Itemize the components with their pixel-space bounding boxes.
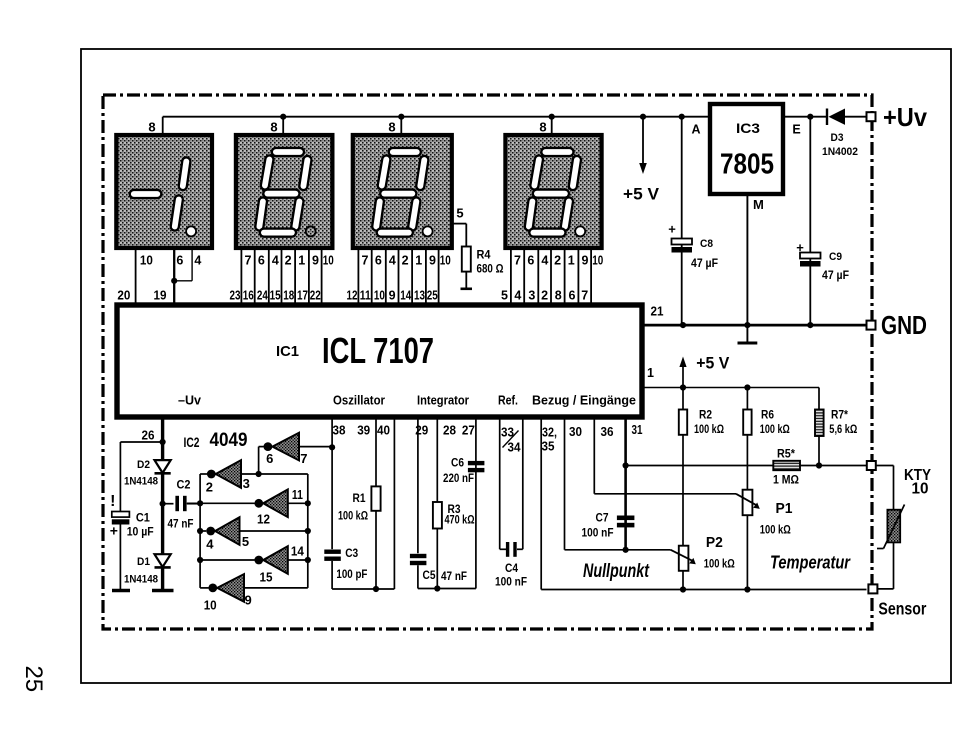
svg-text:10 µF: 10 µF — [127, 525, 154, 539]
svg-text:GND: GND — [881, 310, 927, 340]
svg-text:1: 1 — [298, 254, 305, 268]
svg-text:4049: 4049 — [210, 430, 248, 451]
svg-text:14: 14 — [291, 544, 305, 559]
svg-text:7: 7 — [581, 289, 588, 303]
svg-text:Bezug / Eingänge: Bezug / Eingänge — [532, 393, 636, 408]
svg-text:29: 29 — [415, 424, 428, 438]
svg-text:3: 3 — [528, 289, 535, 303]
svg-text:13: 13 — [414, 289, 425, 303]
svg-text:39: 39 — [357, 424, 370, 438]
svg-text:C2: C2 — [177, 478, 191, 492]
svg-text:6: 6 — [258, 254, 265, 268]
svg-text:1N4148: 1N4148 — [124, 574, 158, 586]
svg-text:IC2: IC2 — [184, 435, 200, 450]
svg-text:1N4002: 1N4002 — [822, 146, 858, 158]
svg-text:32,: 32, — [542, 426, 557, 440]
svg-text:IC1: IC1 — [276, 343, 299, 360]
svg-text:10: 10 — [204, 598, 217, 613]
svg-text:8: 8 — [539, 120, 546, 135]
svg-text:Temperatur: Temperatur — [770, 553, 851, 573]
svg-text:22: 22 — [310, 289, 321, 303]
svg-text:D1: D1 — [137, 556, 150, 568]
svg-text:5: 5 — [456, 206, 463, 221]
svg-text:6: 6 — [266, 451, 273, 466]
svg-text:C6: C6 — [451, 458, 464, 470]
svg-text:47 µF: 47 µF — [822, 270, 849, 282]
svg-text:7: 7 — [362, 254, 369, 268]
svg-text:23: 23 — [230, 289, 241, 303]
svg-text:4: 4 — [206, 537, 214, 552]
svg-text:9: 9 — [244, 593, 251, 608]
svg-text:14: 14 — [400, 289, 411, 303]
svg-text:18: 18 — [283, 289, 294, 303]
svg-text:25: 25 — [427, 289, 438, 303]
svg-text:10: 10 — [323, 254, 334, 268]
svg-text:Sensor: Sensor — [878, 599, 926, 619]
svg-text:+5 V: +5 V — [623, 186, 659, 204]
svg-text:8: 8 — [555, 289, 562, 303]
svg-text:9: 9 — [389, 289, 396, 303]
svg-text:16: 16 — [243, 289, 254, 303]
svg-text:R1: R1 — [353, 493, 367, 505]
svg-text:100 kΩ: 100 kΩ — [760, 525, 791, 537]
svg-text:27: 27 — [462, 424, 475, 438]
svg-text:100 nF: 100 nF — [582, 526, 614, 540]
svg-text:7: 7 — [300, 451, 307, 466]
svg-text:!: ! — [110, 493, 115, 510]
svg-text:38: 38 — [333, 424, 346, 438]
svg-text:E: E — [792, 123, 800, 137]
svg-text:10: 10 — [440, 254, 451, 268]
svg-text:100 kΩ: 100 kΩ — [760, 424, 790, 436]
svg-text:19: 19 — [154, 289, 167, 303]
svg-text:IC3: IC3 — [736, 120, 760, 136]
svg-text:11: 11 — [292, 487, 303, 502]
svg-text:3: 3 — [243, 476, 250, 491]
svg-text:100 kΩ: 100 kΩ — [694, 424, 724, 436]
svg-text:–Uv: –Uv — [178, 393, 202, 408]
svg-text:4: 4 — [389, 254, 396, 268]
svg-text:100 kΩ: 100 kΩ — [338, 511, 368, 523]
svg-text:4: 4 — [514, 289, 521, 303]
svg-text:680 Ω: 680 Ω — [477, 262, 504, 276]
svg-text:12: 12 — [257, 512, 270, 527]
svg-text:D3: D3 — [831, 132, 844, 144]
svg-text:6: 6 — [375, 254, 382, 268]
svg-text:P2: P2 — [706, 534, 723, 551]
svg-text:5: 5 — [501, 289, 508, 303]
svg-text:24: 24 — [257, 289, 268, 303]
svg-text:4: 4 — [541, 254, 548, 268]
svg-text:7: 7 — [245, 254, 252, 268]
svg-text:Ref.: Ref. — [498, 393, 518, 408]
svg-text:R5*: R5* — [777, 448, 795, 460]
svg-text:15: 15 — [260, 570, 273, 585]
svg-text:7: 7 — [514, 254, 521, 268]
svg-text:C4: C4 — [505, 563, 519, 575]
svg-text:7805: 7805 — [720, 149, 774, 181]
svg-text:6: 6 — [569, 289, 576, 303]
svg-text:35: 35 — [542, 440, 555, 454]
svg-text:C8: C8 — [700, 238, 713, 250]
svg-text:47 nF: 47 nF — [441, 569, 467, 583]
svg-text:25: 25 — [20, 665, 47, 692]
svg-text:ICL 7107: ICL 7107 — [322, 330, 434, 371]
svg-text:+: + — [668, 222, 676, 237]
svg-text:1: 1 — [568, 254, 575, 268]
svg-text:10: 10 — [140, 254, 153, 268]
svg-text:C3: C3 — [345, 548, 358, 560]
svg-text:47 µF: 47 µF — [691, 258, 718, 270]
svg-text:30: 30 — [569, 425, 582, 439]
svg-text:+5 V: +5 V — [696, 355, 729, 373]
svg-text:220 nF: 220 nF — [443, 471, 474, 485]
svg-text:2: 2 — [285, 254, 292, 268]
svg-text:26: 26 — [142, 429, 155, 443]
svg-text:P1: P1 — [776, 500, 793, 517]
svg-text:36: 36 — [601, 425, 614, 439]
svg-text:8: 8 — [148, 120, 155, 135]
svg-text:2: 2 — [541, 289, 548, 303]
svg-text:20: 20 — [117, 289, 130, 303]
svg-text:Oszillator: Oszillator — [333, 393, 385, 408]
svg-text:2: 2 — [206, 480, 213, 495]
svg-text:M: M — [753, 197, 764, 212]
svg-text:4: 4 — [194, 254, 201, 268]
svg-text:R4: R4 — [477, 250, 492, 262]
svg-text:D2: D2 — [137, 459, 150, 471]
svg-text:9: 9 — [312, 254, 319, 268]
svg-text:9: 9 — [429, 254, 436, 268]
svg-text:+: + — [796, 240, 804, 255]
svg-text:C7: C7 — [596, 513, 609, 525]
svg-text:40: 40 — [377, 424, 390, 438]
svg-text:8: 8 — [388, 120, 395, 135]
svg-text:5: 5 — [242, 534, 249, 549]
svg-text:2: 2 — [402, 254, 409, 268]
svg-text:2: 2 — [554, 254, 561, 268]
svg-text:100 nF: 100 nF — [495, 575, 527, 589]
svg-text:8: 8 — [270, 120, 277, 135]
svg-text:1: 1 — [647, 366, 654, 380]
svg-text:R2: R2 — [699, 410, 712, 422]
svg-text:10: 10 — [912, 481, 929, 498]
svg-text:10: 10 — [374, 289, 385, 303]
svg-text:R7*: R7* — [831, 410, 848, 422]
svg-text:1N4148: 1N4148 — [124, 476, 158, 488]
svg-text:9: 9 — [582, 254, 589, 268]
svg-text:100 kΩ: 100 kΩ — [704, 559, 735, 571]
svg-text:+: + — [110, 523, 118, 539]
svg-text:6: 6 — [527, 254, 534, 268]
svg-text:10: 10 — [592, 254, 603, 268]
svg-text:34: 34 — [508, 441, 521, 455]
svg-text:21: 21 — [651, 305, 664, 319]
svg-text:C9: C9 — [829, 251, 842, 263]
svg-text:C5: C5 — [423, 570, 437, 582]
svg-text:Nullpunkt: Nullpunkt — [583, 561, 649, 582]
svg-text:11: 11 — [360, 289, 371, 303]
svg-text:100 pF: 100 pF — [336, 567, 367, 581]
svg-text:1 MΩ: 1 MΩ — [773, 475, 799, 487]
svg-text:+Uv: +Uv — [883, 102, 927, 132]
svg-text:C1: C1 — [136, 511, 150, 525]
svg-text:6: 6 — [176, 254, 183, 268]
svg-text:28: 28 — [443, 424, 456, 438]
svg-text:12: 12 — [347, 289, 358, 303]
svg-text:5,6 kΩ: 5,6 kΩ — [829, 424, 857, 436]
svg-text:1: 1 — [415, 254, 422, 268]
svg-text:15: 15 — [270, 289, 281, 303]
svg-text:470 kΩ: 470 kΩ — [445, 515, 475, 527]
svg-text:47 nF: 47 nF — [168, 517, 194, 531]
svg-text:R6: R6 — [761, 410, 774, 422]
svg-text:A: A — [691, 123, 700, 137]
svg-text:Integrator: Integrator — [417, 393, 469, 408]
svg-text:31: 31 — [632, 423, 643, 437]
svg-text:4: 4 — [272, 254, 279, 268]
svg-text:17: 17 — [297, 289, 308, 303]
